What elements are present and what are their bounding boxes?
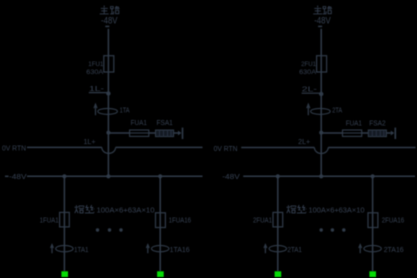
load terminal green right branch 1 [275, 271, 282, 277]
wire: branch to surge fuse [108, 132, 178, 134]
svg-text:FSA2: FSA2 [369, 121, 385, 128]
fuse 2FU1 [317, 56, 327, 72]
ellipsis dots between branches right [320, 228, 346, 231]
fuse 2FUA1 [273, 212, 283, 227]
node 1L- underline [89, 92, 109, 94]
fuse 1FUA16 [156, 213, 166, 228]
surge arrester FSA2 arrow and bar [391, 131, 394, 136]
svg-text:FSA1: FSA1 [157, 120, 173, 127]
label 主路 (right feeder title) [313, 6, 332, 14]
terminal tick left feeder [105, 25, 109, 27]
node 2L- underline [302, 92, 322, 94]
junction dot bus branch 1 [62, 174, 66, 178]
svg-text:630A: 630A [86, 69, 104, 76]
svg-text:2L-: 2L- [302, 87, 318, 94]
label 熔丝: 100A×6+63A×10 left [75, 205, 155, 214]
current transformer 1TA16 ellipse [152, 245, 169, 251]
current transformer 1TA arrow [95, 106, 97, 115]
junction dot bus center [106, 174, 110, 178]
wire: 0V RTN right rail with hop [241, 147, 314, 149]
label -48V bus left [5, 175, 9, 177]
wire: branch to surge fuse right [321, 132, 391, 134]
wire: left main feeder vertical [107, 29, 109, 94]
fuse FUA2 [343, 130, 362, 136]
svg-text:2FU1: 2FU1 [301, 61, 316, 68]
current transformer 2TA16 arrow [359, 246, 361, 253]
wire: main down to -48V bus [107, 133, 109, 176]
svg-text:2L+: 2L+ [298, 139, 310, 146]
wire: branch 1 down [63, 176, 65, 271]
svg-text:2FUA1: 2FUA1 [253, 217, 272, 224]
svg-text:1L-: 1L- [89, 86, 105, 93]
svg-text:1TA16: 1TA16 [170, 247, 190, 254]
svg-text:100A×6+63A×10: 100A×6+63A×10 [309, 205, 365, 214]
svg-text:0V RTN: 0V RTN [214, 146, 238, 153]
label 熔丝: 100A×6+63A×10 right [287, 205, 365, 214]
current transformer 2TA1 arrow [264, 246, 266, 253]
surge arrester FSA1 body [156, 130, 174, 137]
current transformer 1TA16 arrow [147, 246, 149, 253]
current transformer 2TA arrow [307, 106, 309, 115]
current transformer 1TA1 arrow [51, 246, 53, 253]
svg-text:-48V: -48V [222, 172, 240, 181]
wire: 1L- down to CT [107, 94, 109, 133]
load terminal green right branch 16 [369, 271, 376, 277]
wire: right main down to -48V bus [320, 133, 322, 176]
wire: branch 16 down [159, 176, 161, 271]
svg-text:1TA: 1TA [120, 108, 130, 115]
junction dot bus branch 16 [158, 174, 162, 178]
junction dot bus right center [319, 174, 323, 178]
junction dot branch to SPD [106, 131, 110, 135]
fuse 2FUA16 [368, 213, 378, 228]
current transformer 2TA1 ellipse [269, 245, 286, 251]
svg-text:FUA1: FUA1 [346, 121, 362, 128]
junction dot node 1L- [106, 91, 110, 95]
current transformer 2TA16 ellipse [364, 245, 381, 251]
svg-text::: : [305, 205, 307, 214]
svg-text:1TA1: 1TA1 [74, 247, 89, 254]
svg-text:1FU1: 1FU1 [88, 61, 103, 68]
wire: 2L- down to CT [320, 94, 322, 133]
wire: -48V bus right [243, 175, 415, 177]
junction dot bus right branch 16 [371, 174, 375, 178]
wire: -48V bus left [27, 175, 203, 177]
svg-text:-48V: -48V [101, 16, 118, 26]
svg-text:FUA1: FUA1 [131, 120, 147, 127]
svg-text:0V RTN: 0V RTN [2, 145, 26, 152]
load terminal green branch 1 [61, 271, 68, 277]
load terminal green branch 16 [157, 271, 164, 277]
fuse FUA1 [130, 130, 149, 136]
wire: right branch 1 down [277, 176, 279, 271]
svg-text:100A×6+63A×10: 100A×6+63A×10 [97, 205, 155, 214]
current transformer 1TA1 ellipse [56, 245, 73, 251]
current transformer 2TA ellipse [311, 108, 331, 114]
surge arrester FSA2 body [368, 130, 386, 137]
svg-text:-48V: -48V [9, 172, 27, 181]
svg-text:1FUA16: 1FUA16 [169, 218, 192, 225]
svg-text:-48V: -48V [314, 16, 331, 26]
svg-text:1L+: 1L+ [84, 139, 96, 146]
junction dot bus right branch 1 [276, 174, 280, 178]
junction dot branch to SPD right [319, 131, 323, 135]
svg-text:630A: 630A [299, 69, 317, 76]
junction dot node 2L- [319, 92, 323, 96]
svg-text::: : [93, 205, 95, 214]
fuse 1FUA1 [60, 212, 70, 227]
wire: right branch 16 down [372, 176, 374, 271]
svg-text:2TA: 2TA [332, 108, 342, 115]
svg-text:2FUA16: 2FUA16 [382, 218, 405, 225]
fuse 1FU1 [104, 56, 114, 72]
wire: 0V RTN left rail with hop [27, 146, 102, 148]
svg-text:2TA16: 2TA16 [384, 247, 404, 254]
wire: right main feeder vertical [320, 29, 322, 94]
label 主路 (left feeder title) [100, 6, 120, 14]
terminal tick right feeder [318, 25, 322, 27]
current transformer 1TA ellipse [98, 108, 118, 114]
ellipsis dots between branches left [96, 228, 123, 231]
svg-text:2TA1: 2TA1 [287, 247, 302, 254]
svg-text:1FUA1: 1FUA1 [40, 217, 59, 224]
surge arrester FSA1 arrow and bar [178, 131, 181, 136]
